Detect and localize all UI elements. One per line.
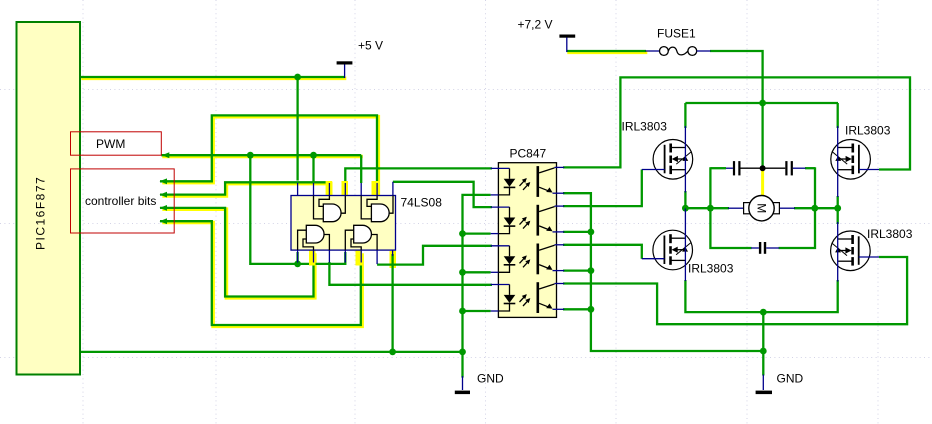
wire PC847 ch1 collector to M3 gate xyxy=(563,77,910,169)
transistor Q2 IRL3803 xyxy=(653,230,693,270)
wire PWM to pins 1 and 4 xyxy=(250,155,345,264)
wire cap right vertical xyxy=(779,167,815,248)
motor M xyxy=(728,196,795,221)
net highlight PWM wire xyxy=(162,155,362,159)
junction emitter ch4 xyxy=(588,306,595,313)
Q4 drain-source lead xyxy=(837,222,839,282)
junction M3 source node xyxy=(834,205,841,212)
junction PWM branch 2 xyxy=(310,152,317,159)
microcontroller PIC16F877 xyxy=(17,22,81,375)
junction ch2 cathode xyxy=(459,230,466,237)
svg-text:PIC16F877: PIC16F877 xyxy=(34,176,48,250)
wire controller bit P to pin 9 xyxy=(160,115,377,183)
wire PWM to pin 13 xyxy=(312,155,314,183)
net highlight controller bit S xyxy=(162,223,362,327)
svg-text:IRL3803: IRL3803 xyxy=(688,262,734,276)
svg-text:PWM: PWM xyxy=(96,137,125,151)
arrow controller bit S xyxy=(160,218,168,224)
PC847 channel 4 LED xyxy=(491,285,531,312)
wire ch4 cathode xyxy=(463,310,491,312)
svg-text:GND: GND xyxy=(777,372,804,386)
wire emitter ch3 xyxy=(563,269,591,271)
svg-text:IRL3803: IRL3803 xyxy=(845,124,891,138)
svg-text:PC847: PC847 xyxy=(510,147,547,161)
wire cap top right lead xyxy=(805,167,815,169)
arrow PWM wire xyxy=(162,152,170,158)
svg-text:74LS08: 74LS08 xyxy=(401,196,443,210)
AND gate B (pins 4,5 in, 6 out) xyxy=(345,225,377,250)
junction +5V branch xyxy=(294,74,301,81)
junction fuse node xyxy=(759,100,766,107)
PC847 channel 2 phototransistor xyxy=(538,205,565,236)
wire emitter ch2 xyxy=(563,231,591,233)
arrow controller bit R xyxy=(160,205,168,211)
74LS08 top pin stubs 14 13 12 11 10 9 8 xyxy=(298,182,393,196)
wire M4 drain upper xyxy=(837,208,839,224)
svg-text:M: M xyxy=(755,203,769,213)
AND gate A (pins 1,2 in, 3 out) xyxy=(298,225,330,250)
Q1 gate lead xyxy=(642,169,665,171)
capacitor C1 (top left) xyxy=(726,161,741,175)
transistor Q1 IRL3803 xyxy=(653,140,693,180)
transistor Q3 IRL3803 xyxy=(831,140,871,180)
wire controller bit S to pin 5 xyxy=(160,221,361,325)
highlight motor to cap-mid wire xyxy=(761,169,764,196)
wire emitter ch4 xyxy=(563,308,591,310)
PC847 channel 4 phototransistor xyxy=(538,282,565,313)
svg-text:FUSE1: FUSE1 xyxy=(657,26,696,40)
pin highlights 74LS08 bottom pins 2 5 xyxy=(309,251,316,266)
wire pin 1 stub join xyxy=(296,252,298,264)
wire controller bit R to pin 2 xyxy=(160,208,314,297)
wire fuse to bridge xyxy=(710,51,763,166)
junction emitter ch3 xyxy=(588,267,595,274)
svg-text:IRL3803: IRL3803 xyxy=(867,227,913,241)
Q3 drain-source lead xyxy=(837,126,839,197)
wire motor line right xyxy=(794,196,838,208)
junction ch4 cathode xyxy=(459,308,466,315)
74LS08 bottom pin stubs 1 2 3 4 5 6 7 xyxy=(298,250,393,264)
wire emitter rail ch1 xyxy=(563,193,763,351)
arrow controller bit P xyxy=(160,178,168,184)
power symbol +7.2V xyxy=(518,17,576,52)
wire +7.2V to fuse xyxy=(567,50,647,52)
pin highlight 74LS08 pin 7 xyxy=(390,251,397,268)
junction cap left node xyxy=(707,205,714,212)
AND gate D (pins 12,13 in, 11 out) xyxy=(314,196,346,222)
wire PC847 ch2 collector to M1 gate xyxy=(563,170,642,207)
junction ch3 cathode xyxy=(459,269,466,276)
svg-text:IRL3803: IRL3803 xyxy=(622,120,668,134)
PC847 channel 2 LED xyxy=(491,207,531,234)
junction PWM at pin 1 xyxy=(294,261,301,268)
PC847 channel 3 LED xyxy=(491,246,531,272)
wire 74LS08 pin 11 to PC847 ch1 anode xyxy=(345,168,492,183)
wire M2 source xyxy=(685,280,837,312)
net highlight controller bit P xyxy=(162,117,378,196)
Q3 gate lead xyxy=(859,169,879,171)
Q4 gate lead xyxy=(859,256,879,258)
pin highlights 74LS08 top pins 12 11 9 xyxy=(326,181,333,196)
wire +5V rail from PIC xyxy=(80,76,345,78)
ground symbol GND2 xyxy=(756,372,804,395)
wire bottom rail to GND2 xyxy=(762,312,764,375)
PC847 channel 3 phototransistor xyxy=(538,244,565,275)
wire M1 drain lead xyxy=(684,103,686,128)
PC847 channel 1 LED xyxy=(491,168,531,195)
junction bottom rail xyxy=(760,309,767,316)
svg-text:+5 V: +5 V xyxy=(358,39,383,53)
PC847 channel 1 phototransistor xyxy=(538,166,565,197)
wire PWM line xyxy=(161,154,361,156)
junction emitter ch2 xyxy=(588,229,595,236)
capacitor C2 (top right) xyxy=(785,161,805,175)
junction M1 source node xyxy=(682,205,689,212)
wire ch3 cathode xyxy=(463,271,491,273)
wire controller bit Q to pin 12 xyxy=(160,182,329,194)
capacitor C3 (bottom) xyxy=(751,242,779,254)
wire PIC ground line xyxy=(80,351,463,353)
wire +5V branch to 74LS08 pin 14 xyxy=(296,77,298,181)
arrow controller bit Q xyxy=(160,192,168,198)
junction cap right node xyxy=(811,205,818,212)
junction gnd at cathode rail xyxy=(459,349,466,356)
wire motor line (bridge mid left to right) xyxy=(685,191,729,208)
svg-text:GND: GND xyxy=(477,372,504,386)
wire 74LS08 pin 6 to PC847 ch3 anode xyxy=(377,246,492,265)
wire cap mid (black) xyxy=(741,167,786,169)
ground symbol GND1 xyxy=(455,372,504,395)
wire M3 drain lead xyxy=(837,103,839,128)
wire PC847 ch3 collector to M2 gate xyxy=(563,245,642,259)
net highlight controller bit R xyxy=(162,209,314,298)
junction pin7 gnd xyxy=(389,349,396,356)
transistor Q4 IRL3803 xyxy=(831,231,871,271)
IC 74LS08 body xyxy=(291,196,396,251)
wire ch2 cathode xyxy=(463,232,491,234)
svg-text:controller bits: controller bits xyxy=(85,194,156,208)
wire 74LS08 pin 7 to GND net xyxy=(391,254,393,352)
wire 74LS08 pin 3 to PC847 ch4 anode xyxy=(329,262,492,285)
wire PC847 ch4 collector to M4 gate xyxy=(563,257,907,324)
net highlight +5V wire xyxy=(81,77,346,81)
annotation box controller bits xyxy=(71,169,175,233)
junction PWM branch 1 xyxy=(247,152,254,159)
wire 74LS08 pin 8 to PC847 ch2 anode xyxy=(393,182,492,207)
optocoupler PC847 body xyxy=(498,163,556,318)
wire PWM to pin 10 xyxy=(360,155,362,183)
junction emitter rail to gnd2 xyxy=(760,348,767,355)
wire top drain rail xyxy=(685,102,838,104)
power symbol +5V xyxy=(337,39,383,79)
Q2 drain-source lead xyxy=(684,209,686,282)
svg-text:+7,2 V: +7,2 V xyxy=(518,17,553,31)
annotation box PWM xyxy=(71,132,162,155)
net highlight +7.2V fuse wire xyxy=(567,50,647,54)
Q1 drain-source lead xyxy=(684,126,686,193)
net highlight controller bit Q xyxy=(162,184,330,196)
wire cap left vertical xyxy=(710,167,751,248)
AND gate C (pins 9,10 in, 8 out) xyxy=(361,196,393,222)
junction cap mid node (black) xyxy=(760,165,766,171)
wire cap top left lead xyxy=(710,167,726,169)
Q2 gate lead xyxy=(642,258,665,260)
wire PC847 cathode rail to GND xyxy=(463,195,491,378)
fuse FUSE1 xyxy=(646,26,711,55)
